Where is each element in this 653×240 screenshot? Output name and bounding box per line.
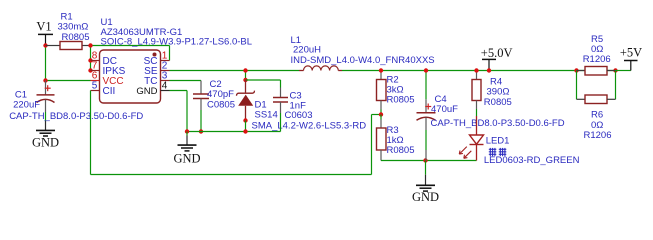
node R2 top [379,68,383,72]
svg-text:C0603: C0603 [285,110,313,121]
pin 4 GND [161,90,170,92]
wire V1 down to VCC branch [45,46,47,81]
wire C4 to rail2 [425,130,427,150]
node C4 top [424,68,428,72]
svg-text:LED1: LED1 [486,135,510,146]
pin 3 TC [161,80,170,82]
wire top rail to SC [91,45,170,47]
node R5/R6 right [613,68,617,72]
svg-text:R1206: R1206 [583,54,611,65]
resistor R3 [377,115,415,161]
node R1/top rail [88,43,92,47]
svg-text:R0805: R0805 [387,145,415,156]
wire to +5V [616,70,631,72]
svg-text:CAP-TH_BD8.0-P3.50-D0.6-FD: CAP-TH_BD8.0-P3.50-D0.6-FD [431,118,565,129]
power flag +5.0V [481,46,513,70]
diode D1 SS14 [237,80,367,132]
wire R6 loop [576,71,578,100]
node +5.0V stub [487,68,491,72]
wire D1 to C3 [246,79,281,81]
label cuilv (CJK approximated) [489,148,507,156]
node R4 top [474,68,478,72]
wire C2 to gnd rail [200,110,202,132]
svg-text:CAP-TH_BD8.0-P3.50-D0.6-FD: CAP-TH_BD8.0-P3.50-D0.6-FD [9,111,143,122]
node rail2/GND [423,158,427,162]
pin 1 SC [161,60,170,62]
IC U1 AZ34063UMTR-G1 [100,17,253,103]
svg-text:V1: V1 [36,20,51,34]
wire pin4 GND to rail [170,90,188,92]
pin 7 IPKS [91,70,100,72]
svg-text:GND: GND [412,190,439,204]
node V1/R1 [43,43,47,47]
wire VCC branch to pin6 [46,80,91,82]
resistor R2 [377,71,415,110]
wire SE output rail [170,70,300,72]
svg-text:+5.0V: +5.0V [481,46,513,60]
wire TC to C2 [170,80,202,82]
wire ground rail 1 [187,131,281,133]
node D1/C3 branch [243,78,247,82]
resistor R5 [577,34,616,75]
svg-text:CII: CII [103,86,116,97]
svg-text:SOIC-8_L4.9-W3.9-P1.27-LS6.0-B: SOIC-8_L4.9-W3.9-P1.27-LS6.0-BL [101,36,253,47]
node C2/rail [199,129,203,133]
svg-text:470uF: 470uF [431,104,458,115]
svg-text:C0805: C0805 [207,99,235,110]
power flag +5V [620,46,642,71]
ground (C1) [32,130,59,149]
resistor R6 [577,95,616,141]
capacitor C1 [9,81,143,131]
node feedback junction [379,112,383,116]
node pin8 [88,58,92,62]
capacitor C2 [193,79,235,111]
svg-text:4: 4 [162,81,168,92]
wire SE to D1 [245,71,247,81]
node pin7 [88,68,92,72]
svg-text:GND: GND [136,86,157,97]
node VCC/C1 [43,78,47,82]
ground (IC rail) [173,132,200,166]
node D1 bottom [243,118,247,122]
inductor L1 [291,35,435,71]
svg-text:R1206: R1206 [584,130,612,141]
svg-text:LED0603-RD_GREEN: LED0603-RD_GREEN [484,155,580,166]
capacitor C4 [417,71,565,131]
wire C3 to rail [280,113,282,132]
svg-text:SS14: SS14 [255,110,278,121]
wire drop to DC/IPKS [90,46,92,71]
pin 5 CII [91,90,100,92]
svg-text:+5V: +5V [620,46,642,60]
svg-text:R0805: R0805 [62,32,90,43]
wire R2 to junction [380,110,382,115]
svg-text:IND-SMD_L4.0-W4.0_FNR40XXS: IND-SMD_L4.0-W4.0_FNR40XXS [291,55,435,66]
pin 6 VCC [91,80,100,82]
svg-text:SMA_L4.2-W2.6-LS5.3-RD: SMA_L4.2-W2.6-LS5.3-RD [252,121,367,132]
node R5/R6 left [574,68,578,72]
pin 2 SE [161,70,170,72]
node rail/GND junction [185,129,189,133]
resistor R1 [46,11,91,49]
node SE/D1 [243,68,247,72]
pin 8 DC [91,60,100,62]
svg-text:5: 5 [92,81,98,92]
resistor R4 [472,71,512,110]
wire D1 to rail [245,121,247,132]
svg-text:R0805: R0805 [387,95,415,106]
svg-text:GND: GND [173,152,200,166]
LED1 [459,109,579,166]
wire feedback: pin5 down, across, up to divider [90,91,92,175]
svg-text:GND: GND [32,135,59,149]
ground (output rail) [412,161,439,204]
capacitor C3 [273,88,313,121]
svg-text:R0805: R0805 [484,97,512,108]
power flag V1 [36,20,53,44]
wire ground rail 2 [381,160,477,162]
svg-text:220uF: 220uF [13,100,40,111]
